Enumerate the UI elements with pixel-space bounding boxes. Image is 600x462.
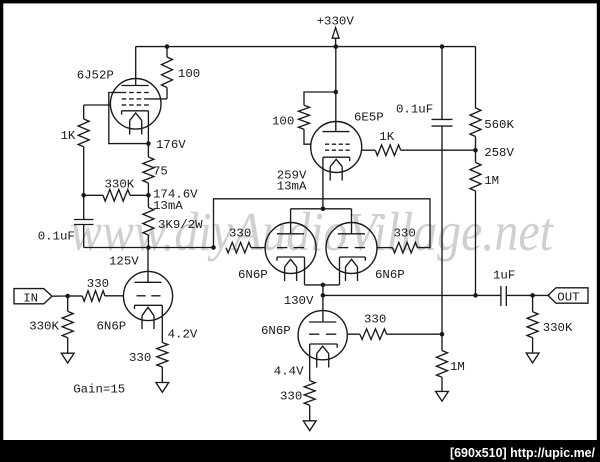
- wire pair-right cathode lead: [339, 257, 341, 285]
- wire 1K top connection to grid: [83, 105, 85, 119]
- node 125V dot at input tube plate: [146, 245, 151, 250]
- svg-text:330: 330: [129, 351, 151, 365]
- tube V5 grid row: [338, 247, 348, 249]
- tube V1 grid1 row: [122, 104, 127, 106]
- tube V1 plate: [122, 85, 149, 87]
- wire grid resistor to node: [387, 333, 442, 335]
- resistor 330K output to ground: [532, 295, 534, 311]
- node rail junction dot at 0.1uF column: [440, 44, 445, 49]
- ground below output 330K: [526, 353, 539, 363]
- tube V6 6N6P bottom envelope: [298, 311, 347, 360]
- svg-text:125V: 125V: [109, 255, 139, 269]
- svg-text:6J52P: 6J52P: [77, 69, 114, 83]
- node rail junction dot at 100 ohm (6J52P screen): [165, 44, 170, 49]
- node input junction dot: [65, 294, 70, 299]
- resistor 330 pair-left grid: [226, 242, 251, 253]
- tube V4 cathode: [277, 256, 305, 258]
- svg-text:0.1uF: 0.1uF: [396, 103, 433, 117]
- node 130V dot: [321, 293, 326, 298]
- tube V2 grid row: [137, 295, 146, 297]
- node 258V dot: [473, 148, 478, 153]
- svg-text:Gain=15: Gain=15: [73, 383, 125, 397]
- tube V1 cathode: [122, 110, 149, 112]
- wire cap to OUT: [506, 294, 549, 296]
- wire g3 lead left: [113, 92, 121, 94]
- wire cathode bus to 130V node: [322, 285, 324, 296]
- svg-text:1M: 1M: [484, 174, 499, 188]
- svg-text:4.2V: 4.2V: [168, 328, 198, 342]
- svg-text:1K: 1K: [61, 129, 76, 143]
- wire bottom grid lead right: [347, 333, 360, 335]
- wire pair-left plate lead: [290, 209, 292, 234]
- svg-text:6N6P: 6N6P: [238, 268, 268, 282]
- node 176V junction dot: [146, 141, 151, 146]
- svg-text:6E5P: 6E5P: [354, 111, 384, 125]
- tube V2 cathode: [135, 304, 163, 306]
- ground below 1M: [436, 391, 449, 401]
- svg-text:330K: 330K: [29, 320, 59, 334]
- capacitor 0.1uF (cathode bypass): [83, 195, 85, 219]
- tube V3 grid2 row: [325, 143, 329, 145]
- tube V2 6N6P input triode envelope: [123, 271, 172, 320]
- svg-text:130V: 130V: [284, 294, 314, 308]
- wire 258V line: [401, 149, 476, 151]
- svg-text:560K: 560K: [484, 118, 514, 132]
- svg-text:OUT: OUT: [557, 290, 579, 304]
- svg-text:330: 330: [394, 227, 416, 241]
- tube V1 6J52P envelope: [110, 79, 161, 130]
- tube V6 plate: [309, 321, 336, 323]
- node rail-B+ junction dot at 6E5P column: [334, 44, 339, 49]
- svg-text:0.1uF: 0.1uF: [38, 229, 75, 243]
- wire pair cathode bus: [305, 284, 340, 286]
- resistor 330K input to ground: [67, 296, 69, 311]
- wire 6E5P cathode lead down: [322, 157, 324, 209]
- wire suppressor-to-cathode box: [109, 93, 149, 144]
- tube V1 grid3 row: [122, 92, 127, 94]
- resistor 1K (6E5P grid): [375, 145, 400, 156]
- resistor 330K (horizontal): [84, 194, 103, 196]
- tube V4 grid row: [277, 247, 287, 249]
- resistor 75 (cathode): [147, 144, 149, 157]
- tube V4 heater: [285, 259, 297, 267]
- wire 125V node line: [84, 247, 214, 249]
- node pair plate dot: [321, 207, 326, 212]
- tube V5 plate: [338, 233, 365, 235]
- wire grid lead left: [105, 295, 124, 297]
- svg-text:13mA: 13mA: [277, 179, 307, 193]
- tube V3 6E5P envelope: [311, 122, 362, 173]
- tube V2 heater: [142, 307, 154, 315]
- svg-text:100: 100: [178, 67, 200, 81]
- wire 1K bottom to junction: [83, 147, 85, 196]
- resistor 330 bottom grid: [360, 329, 387, 340]
- wire IN to node: [52, 295, 68, 297]
- svg-text:1M: 1M: [450, 360, 465, 374]
- resistor 330 pair-right grid: [393, 242, 418, 253]
- tube V4 6N6P pair-left envelope: [265, 223, 316, 274]
- svg-text:330: 330: [87, 277, 109, 291]
- border frame: [0, 0, 600, 3]
- wire bottom plate lead: [322, 295, 324, 322]
- resistor 1M (258V to output): [475, 150, 477, 162]
- svg-text:1uF: 1uF: [493, 269, 515, 283]
- node output dot at 1M column: [473, 293, 478, 298]
- svg-text:176V: 176V: [156, 138, 186, 152]
- tube V5 6N6P pair-right envelope: [326, 223, 377, 274]
- wire pair-left cathode lead: [304, 257, 306, 285]
- capacitor 1uF output: [500, 286, 502, 306]
- wire pair-right grid lead: [377, 247, 392, 249]
- svg-text:IN: IN: [23, 291, 38, 305]
- wire 130V output line: [323, 294, 501, 296]
- resistor 330 input cathode: [161, 305, 163, 342]
- wire pair-right plate lead: [351, 209, 353, 234]
- tube V5 cathode: [340, 256, 366, 258]
- svg-text:6N6P: 6N6P: [261, 324, 291, 338]
- wire grid-feed U loop: [214, 199, 431, 248]
- svg-text:75: 75: [153, 165, 168, 179]
- wire g1 lead right to 1K: [362, 149, 376, 151]
- resistor 330 bottom cathode: [304, 381, 315, 406]
- node pair cathode dot: [321, 283, 326, 288]
- svg-text:330: 330: [229, 226, 251, 240]
- wire g2 lead right to 100 ohm: [149, 98, 167, 100]
- svg-text:[690x510] http://upic.me/: [690x510] http://upic.me/: [450, 445, 595, 460]
- resistor 1M bottom to ground: [441, 334, 443, 350]
- resistor 100 (6J52P screen feed): [166, 47, 168, 57]
- tube V4 plate: [277, 233, 304, 235]
- power rail +330V net: [136, 46, 476, 48]
- svg-text:330: 330: [364, 312, 386, 326]
- wire g1 lead left to 1K: [84, 104, 111, 106]
- resistor 1K (6J52P grid): [78, 119, 89, 147]
- resistor 330 input grid stopper: [82, 291, 105, 302]
- svg-text:330K: 330K: [105, 177, 135, 191]
- tube V6 grid row: [309, 333, 319, 335]
- svg-text:330: 330: [280, 390, 302, 404]
- capacitor 0.1uF (right): [441, 47, 443, 120]
- terminal IN tag: [14, 289, 52, 304]
- wire input plate lead: [147, 248, 149, 283]
- resistor 100 (6E5P screen): [304, 92, 336, 105]
- power symbol +330V arrow: [332, 28, 339, 39]
- node bottom grid dot: [440, 332, 445, 337]
- svg-text:330K: 330K: [543, 321, 573, 335]
- ground below input cathode resistor: [156, 383, 169, 393]
- node screen branch dot: [334, 90, 339, 95]
- svg-text:258V: 258V: [484, 146, 514, 160]
- node output dot at 330K: [530, 293, 535, 298]
- resistor 3K9/2W: [147, 195, 149, 207]
- node 125V dot at grid-feed branch: [211, 245, 216, 250]
- terminal OUT tag: [548, 288, 588, 303]
- wire 6E5P plate lead: [335, 92, 337, 132]
- svg-text:13mA: 13mA: [153, 199, 183, 213]
- tube V3 cathode: [323, 156, 350, 158]
- tube V3 grid1 row: [325, 149, 329, 151]
- tube V5 heater: [346, 259, 358, 267]
- bottom banner bar: [0, 440, 600, 462]
- wire V1 cathode lead down to 176V node: [147, 111, 149, 144]
- svg-text:1K: 1K: [379, 130, 394, 144]
- wire rail to 6E5P screen branch: [335, 47, 337, 92]
- svg-text:+330V: +330V: [317, 14, 355, 28]
- svg-text:6N6P: 6N6P: [97, 320, 127, 334]
- wire 6J52P plate lead to rail: [135, 47, 137, 86]
- wire pair plate bus: [291, 208, 352, 210]
- ground below bottom cathode resistor: [303, 421, 316, 431]
- tube V6 cathode: [310, 343, 338, 345]
- tube V3 plate: [323, 131, 350, 133]
- tube V2 plate: [135, 281, 162, 283]
- tube V1 heater: [130, 113, 142, 121]
- wire pair-left grid lead: [251, 247, 265, 249]
- svg-text:6N6P: 6N6P: [375, 268, 405, 282]
- node 174.6V junction dot: [146, 193, 151, 198]
- svg-text:4.4V: 4.4V: [274, 365, 304, 379]
- tube V1 grid2 row: [122, 98, 127, 100]
- tube V3 heater: [330, 159, 342, 166]
- node junction dot 1K/330K/0.1uF: [81, 193, 86, 198]
- wire bottom cathode lead: [309, 344, 311, 381]
- svg-text:3K9/2W: 3K9/2W: [158, 218, 203, 232]
- ground below 330K input: [61, 353, 74, 363]
- tube V6 heater: [317, 346, 329, 353]
- resistor 560K: [475, 47, 477, 108]
- svg-text:100: 100: [272, 114, 294, 128]
- svg-text:www.diyAudioVillage.net: www.diyAudioVillage.net: [70, 201, 554, 262]
